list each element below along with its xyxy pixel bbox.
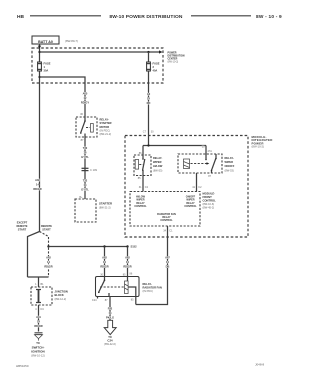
svg-text:(IN PDC): (IN PDC) — [100, 128, 111, 132]
svg-text:RELAY-: RELAY- — [153, 156, 162, 160]
svg-text:A42: A42 — [102, 256, 107, 260]
svg-text:A47: A47 — [165, 256, 170, 260]
svg-text:(8W-53): (8W-53) — [153, 168, 162, 172]
svg-text:MODULE-: MODULE- — [203, 192, 216, 196]
svg-text:(8W-12-2): (8W-12-2) — [55, 297, 67, 301]
svg-text:RD: RD — [147, 101, 151, 105]
wiper on/off relay internals — [184, 154, 217, 173]
node main feed junction — [38, 51, 40, 53]
wire branch to starter relay feed — [40, 77, 86, 117]
fuse 1 — [37, 62, 42, 71]
starter dashed box — [75, 199, 96, 222]
svg-text:FUSE: FUSE — [44, 62, 51, 66]
wire drop to fan relay pin 86 — [127, 247, 129, 277]
svg-text:HB51050: HB51050 — [16, 364, 29, 368]
svg-text:(8W-10-2): (8W-10-2) — [252, 145, 265, 149]
svg-text:DB: DB — [166, 265, 170, 269]
svg-text:RELAY-: RELAY- — [100, 118, 109, 122]
label POWER DISTRIBUTION CENTER — [168, 51, 185, 63]
svg-text:REMOTE: REMOTE — [16, 224, 27, 228]
svg-text:B+: B+ — [79, 196, 83, 199]
connector C118 — [82, 168, 98, 172]
svg-text:EXCEPT: EXCEPT — [17, 220, 28, 224]
svg-text:STARTER: STARTER — [100, 121, 112, 125]
wire label T32 14 YL — [81, 146, 89, 159]
terminal tick below fan relay — [97, 297, 99, 299]
svg-text:(8W-45-2): (8W-45-2) — [203, 206, 215, 210]
wire label A02 14 RD/GR on main rail — [33, 178, 41, 191]
svg-text:(IN PDC): (IN PDC) — [143, 289, 154, 293]
svg-text:CONTROL: CONTROL — [184, 205, 197, 208]
module integrated power dashed box — [125, 136, 248, 238]
svg-text:C24: C24 — [107, 338, 113, 342]
svg-text:BLOCK: BLOCK — [55, 293, 64, 297]
wire fan relay coil bus — [49, 246, 128, 248]
wire starter relay to starter — [84, 137, 86, 199]
svg-text:(8W-53): (8W-53) — [225, 168, 234, 172]
label TO C24 — [104, 335, 116, 346]
svg-text:C 109: C 109 — [90, 168, 97, 172]
svg-text:(8W-42-6): (8W-42-6) — [104, 342, 116, 346]
svg-text:MOTOR: MOTOR — [100, 125, 110, 129]
label MODULE- INTEGRATED POWER — [252, 135, 273, 149]
svg-text:RD/GR: RD/GR — [33, 187, 41, 191]
svg-text:C24: C24 — [92, 299, 97, 302]
svg-text:GY/TL: GY/TL — [81, 155, 89, 159]
label STARTER — [99, 202, 112, 210]
node splice to fan relay bus — [47, 245, 49, 247]
svg-text:JUNCTION: JUNCTION — [55, 290, 68, 294]
wire up into fan relay coil terminal — [135, 297, 137, 305]
svg-text:CONTROL: CONTROL — [203, 199, 217, 203]
svg-text:(8W-80-7): (8W-80-7) — [65, 39, 78, 43]
wire fan relay control run — [136, 237, 168, 305]
battery feed box BATT A0 — [32, 36, 59, 44]
node splice S152 — [126, 245, 128, 247]
svg-text:RD/GR: RD/GR — [44, 265, 52, 269]
svg-text:F42: F42 — [108, 307, 113, 311]
svg-text:HI/LOW: HI/LOW — [153, 164, 163, 168]
header rule right segment — [191, 15, 251, 17]
label RELAY- RADIATOR FAN — [143, 282, 162, 293]
node branch to starter relay — [38, 76, 40, 78]
svg-text:(8W-10-2): (8W-10-2) — [168, 60, 179, 63]
wiper hi/low relay internals — [135, 155, 145, 176]
svg-text:A42: A42 — [125, 256, 130, 260]
relay radiator fan box — [96, 277, 140, 297]
wire label A42 14 RD/GR right — [123, 256, 131, 269]
wire split except remote start branch — [28, 232, 40, 278]
feed entry marker into PDC — [38, 46, 41, 49]
wire split remote start branch dashed — [40, 232, 49, 278]
off-page arrow to radiator fan — [104, 320, 116, 334]
svg-text:T32: T32 — [83, 146, 88, 150]
svg-text:RELAY-: RELAY- — [225, 156, 234, 160]
wire wiper on/off coil to FCM — [196, 173, 198, 192]
svg-text:RADIATOR FAN: RADIATOR FAN — [143, 286, 162, 290]
svg-text:HB: HB — [17, 14, 24, 20]
svg-text:A2: A2 — [147, 92, 151, 96]
relay wiper hi/low dashed box — [134, 155, 151, 176]
fuse 2 — [146, 52, 151, 71]
svg-text:ON/OFF: ON/OFF — [225, 164, 235, 168]
power distribution center dashed box — [32, 48, 163, 83]
svg-text:(8W-21-2): (8W-21-2) — [99, 206, 111, 210]
svg-text:(8W-10-12): (8W-10-12) — [31, 353, 45, 357]
wire fuse 2 to IPM — [148, 71, 150, 136]
fan relay internals — [98, 277, 136, 297]
node bus tap fan relay 30 — [103, 245, 105, 247]
svg-text:WIPER: WIPER — [153, 160, 162, 164]
note REMOTE START — [41, 224, 52, 232]
wire label A42 14 RD/GR at remote branch — [44, 256, 52, 269]
label RELAY- WIPER ON/OFF — [225, 156, 235, 173]
svg-text:RD/GY: RD/GY — [81, 101, 89, 105]
node IPM bus junction — [147, 144, 149, 146]
wire merge bar above junction block — [28, 276, 49, 278]
wire label F42 14 PK — [106, 307, 114, 320]
label RELAY- WIPER HI/LOW — [153, 156, 163, 173]
svg-text:A42: A42 — [46, 256, 51, 260]
wire label T32 14 YL lower — [81, 179, 89, 192]
label FUSE 2 40A — [153, 62, 160, 73]
wire junction block to ignition switch — [38, 305, 40, 332]
junction block bus bar — [36, 290, 41, 303]
svg-text:47A: 47A — [208, 150, 213, 153]
svg-text:RD/GR: RD/GR — [100, 265, 108, 269]
svg-text:RELAY-: RELAY- — [143, 282, 152, 286]
svg-text:RD/GR: RD/GR — [123, 265, 131, 269]
module front control dashed box — [130, 192, 200, 227]
svg-text:FUSE: FUSE — [153, 62, 160, 66]
svg-text:FRONT: FRONT — [203, 195, 213, 199]
svg-text:GY/TL: GY/TL — [81, 188, 89, 192]
wire drop to fan relay pin 30 — [104, 247, 106, 277]
wire IPM internal feed bus — [143, 136, 206, 156]
wire FCM fan relay control output — [167, 226, 169, 237]
note EXCEPT REMOTE START — [16, 220, 27, 231]
label RELAY- STARTER MOTOR — [100, 118, 112, 136]
arrow feed continues right — [159, 50, 163, 53]
svg-text:A05: A05 — [83, 92, 88, 96]
wire drop into junction block — [38, 277, 40, 287]
svg-text:T32: T32 — [83, 179, 88, 183]
FCM text RADIATOR FAN RELAY CONTROL — [157, 213, 176, 222]
svg-text:TO: TO — [36, 341, 40, 345]
junction block dashed box — [31, 287, 52, 305]
wire fan relay output — [109, 297, 111, 321]
svg-text:REMOTE: REMOTE — [41, 224, 52, 228]
label TO SWITCH- IGNITION — [31, 341, 45, 357]
relay starter motor dashed box — [76, 117, 97, 137]
wire label A41 14 RD/OR — [34, 315, 42, 328]
svg-text:A41: A41 — [36, 315, 41, 319]
starter relay internals — [80, 117, 93, 137]
svg-text:J048-8: J048-8 — [255, 363, 265, 367]
svg-text:8W - 10 - 9: 8W - 10 - 9 — [256, 14, 282, 20]
header rule left segment — [30, 15, 101, 17]
connector symbol to ignition switch — [35, 332, 43, 340]
svg-text:40A: 40A — [153, 68, 158, 72]
svg-text:CONTROL: CONTROL — [160, 219, 173, 222]
svg-text:START: START — [18, 228, 27, 232]
wire wiper hi/low coil to FCM — [142, 176, 144, 192]
wire label A2 14 RD — [147, 92, 151, 105]
FCM text ON/OFF WIPER RELAY CONTROL — [184, 195, 197, 208]
wire label A42 14 RD/GR center — [100, 256, 108, 269]
svg-text:S152: S152 — [131, 245, 138, 249]
svg-text:WIPER: WIPER — [225, 160, 234, 164]
svg-text:A02: A02 — [35, 178, 40, 182]
svg-text:STARTER: STARTER — [99, 202, 112, 206]
svg-text:(8W-21-2): (8W-21-2) — [100, 132, 112, 136]
wire BATT to fuse 1 — [39, 44, 41, 62]
label FUSE 1 30A — [44, 62, 51, 73]
svg-text:CONTROL: CONTROL — [134, 205, 147, 208]
svg-text:BATT A0: BATT A0 — [38, 40, 53, 44]
svg-text:RD/OR: RD/OR — [34, 324, 42, 328]
wire fuse 1 output down — [39, 71, 41, 232]
relay wiper on/off dashed box — [178, 154, 222, 173]
svg-text:(8W-10-6): (8W-10-6) — [203, 202, 215, 206]
FCM text HI/LOW WIPER RELAY CONTROL — [134, 195, 147, 208]
node fuse 2 tap — [147, 51, 149, 53]
wire feed bus across PDC — [40, 51, 160, 53]
svg-text:30A: 30A — [44, 68, 49, 72]
svg-text:PK/LG: PK/LG — [106, 316, 114, 320]
svg-text:IGNITION: IGNITION — [31, 350, 44, 354]
wire label A05 12 RD/GY — [81, 92, 89, 105]
svg-text:START: START — [42, 228, 51, 232]
label MODULE- FRONT CONTROL — [203, 192, 217, 210]
svg-text:8W-10 POWER DISTRIBUTION: 8W-10 POWER DISTRIBUTION — [109, 14, 183, 20]
label JUNCTION BLOCK — [55, 290, 68, 301]
wire label A47 14 DB — [165, 256, 170, 269]
